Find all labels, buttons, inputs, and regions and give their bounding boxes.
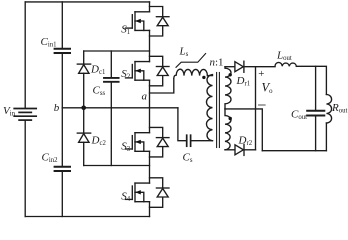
diode Dr1 [235, 61, 250, 87]
svg-text:b: b [54, 102, 60, 114]
wire: left rail upper (Vin+ down to battery) [24, 2, 26, 108]
capacitor Css (flying) [93, 78, 119, 97]
svg-text:+: + [258, 68, 265, 80]
junction at node b and clamp diodes [81, 106, 86, 111]
wire: lower clamp rail y=165.5 [84, 165, 150, 167]
transformer secondary upper winding [225, 67, 231, 109]
wire: Dr2 cathode to link [244, 149, 256, 151]
secondary lower polarity dot [229, 117, 232, 120]
wire: rectifier cathode link (Dr1 to Dr2) [255, 67, 257, 150]
capacitor Cs branch: node b wire down [178, 108, 186, 141]
wire: Dr1 cathode to Lout [244, 66, 275, 68]
wire: left rail lower (battery to bottom rail) [24, 121, 26, 217]
wire: secondary bottom to Dr2 [225, 149, 235, 151]
capacitor Cin1 [41, 36, 71, 53]
wire: Ls to transformer primary top [207, 75, 212, 77]
svg-text:n:1: n:1 [210, 57, 224, 69]
wire: Rout bottom [325, 123, 327, 151]
transistor S3 [121, 133, 149, 153]
wire: clamp column top stub [83, 51, 85, 64]
primary polarity dot [202, 76, 205, 79]
transistor S2 [121, 62, 149, 81]
wire: Css column top [110, 51, 112, 78]
wire: Cin column lower (Cin2 to bottom rail) [61, 172, 63, 217]
svg-text:a: a [142, 91, 148, 103]
wire: Cs to primary bottom [191, 140, 212, 142]
wire: Cin column upper [61, 2, 63, 48]
diode Dc2 [77, 133, 106, 147]
wire: secondary top to Dr1 [225, 66, 235, 68]
wire: upper clamp rail y=51 [84, 50, 150, 52]
wire: Cout bottom stub [315, 116, 317, 151]
capacitor Cout [291, 109, 324, 122]
wire: column S1 source to S2 drain [149, 30, 151, 61]
wire: bottom rail to S4 source [25, 216, 149, 218]
wire: output bottom return [262, 150, 326, 152]
wire: Lout to output corner [296, 66, 326, 94]
label minus [259, 104, 265, 106]
wire: clamp column middle (Dc1 to node b to Dc2) [83, 73, 85, 133]
transformer core [217, 73, 220, 148]
diode Dc1 [77, 64, 105, 77]
capacitor Cs (resonant) [183, 135, 193, 164]
wire: clamp column bottom stub [83, 142, 85, 165]
wire: center tap [225, 109, 262, 151]
diode Dr2 [235, 135, 253, 156]
body diode of S3 [150, 127, 170, 156]
body diode of S4 [150, 178, 170, 208]
inductor Lout [275, 50, 296, 67]
capacitor Cin2 [42, 152, 71, 172]
wire: Cin column middle (Cin1 to node b to Cin2) [61, 54, 63, 167]
body diode of S1 [150, 7, 170, 37]
resistor Rout (coil style) [326, 95, 347, 124]
transformer T1 primary winding [206, 75, 212, 141]
wire: column S3 source to S4 drain [149, 151, 151, 183]
inductor Ls (resonant) [174, 46, 208, 79]
wire: column S1 drain stub [149, 2, 151, 12]
wire: top rail Vin+ to S1 drain [25, 1, 149, 3]
wire: node b horizontal (to Cs branch) [62, 107, 178, 109]
transistor S4 [121, 183, 149, 203]
wire: Css column bottom [110, 82, 112, 165]
secondary upper polarity dot [229, 73, 232, 76]
transistor S1 [121, 12, 149, 36]
transformer secondary lower winding [225, 109, 231, 150]
body diode of S2 [150, 56, 170, 86]
wire: column S4 source to bottom rail [149, 202, 151, 217]
wire: Cout top stub [315, 66, 317, 110]
wire: column S2 source to node a to S3 drain [149, 80, 151, 133]
source Vin (battery) [14, 109, 36, 121]
wire: node a to Ls [150, 79, 174, 94]
